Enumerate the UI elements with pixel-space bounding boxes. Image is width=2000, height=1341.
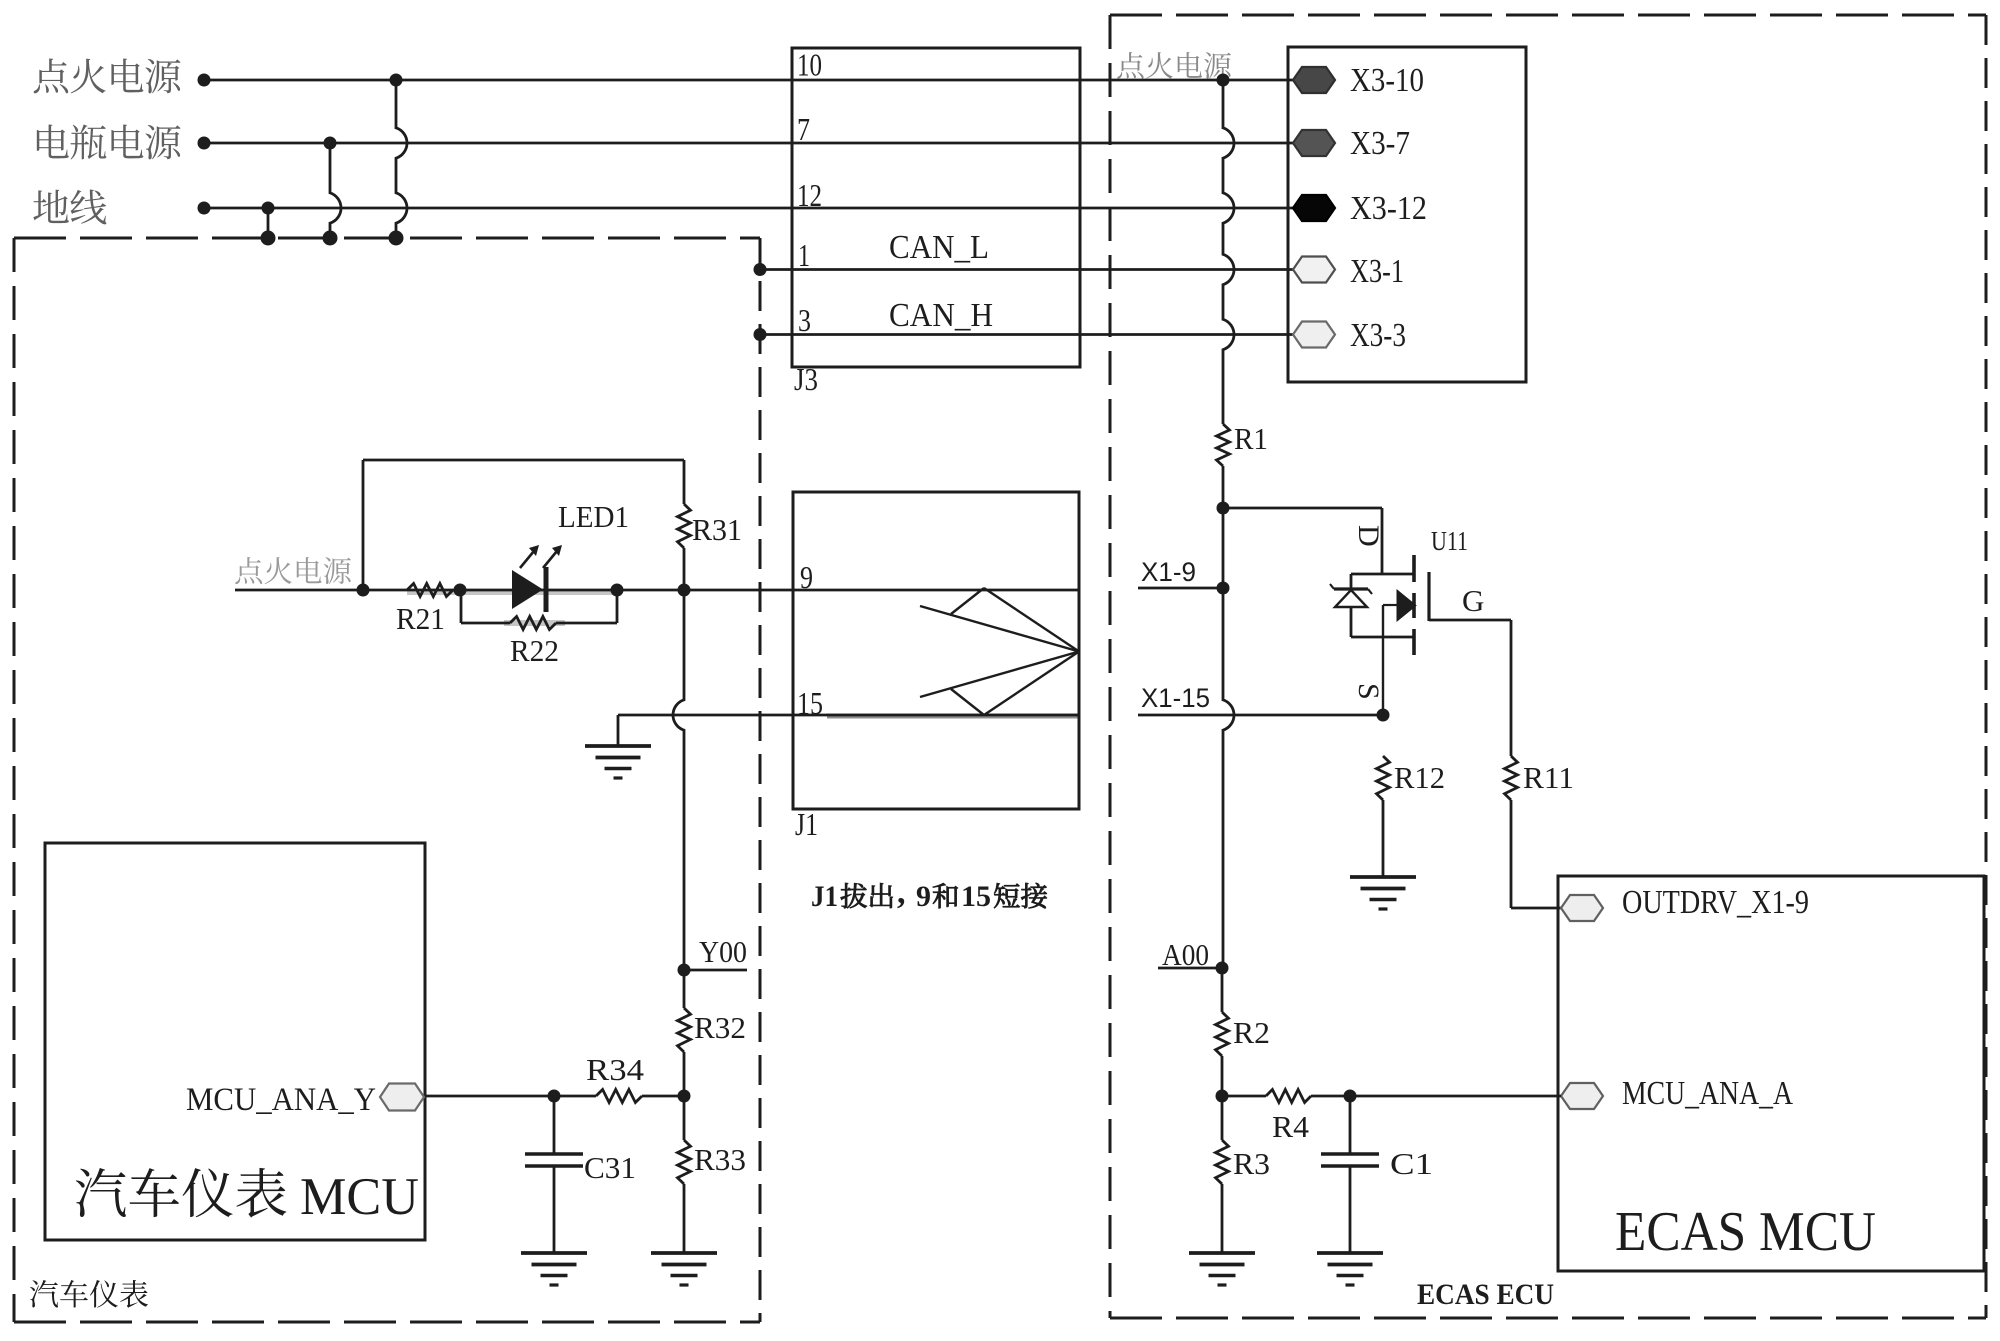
ground on 15 net [617,715,620,746]
svg-text:LED1: LED1 [558,499,629,534]
label 地线 (ground wire) [33,190,68,223]
capacitor C31 [553,1096,556,1154]
svg-text:R12: R12 [1394,760,1445,795]
label 电瓶电源 (battery power) [37,124,69,158]
resistor R4 [1222,1095,1266,1098]
node ignition junction [1217,74,1230,87]
wire battery power rail [204,142,1293,145]
svg-text:C1: C1 [1390,1146,1433,1181]
node R31 junction [678,584,691,597]
svg-text:R31: R31 [692,512,742,547]
wire X1-9 stub [1138,587,1223,590]
node C1 junction [1344,1090,1357,1103]
svg-text:R32: R32 [694,1010,746,1045]
svg-text:MCU_ANA_A: MCU_ANA_A [1622,1075,1793,1112]
resistor R34 [425,1095,596,1098]
svg-text:1: 1 [798,237,810,273]
svg-text:9: 9 [800,559,813,595]
wire battery drop to border [330,143,341,238]
J1 ejector arrows [984,588,1079,652]
resistor R31 [678,504,691,548]
pin MCU_ANA_A [1561,1083,1603,1109]
svg-text:J1: J1 [811,880,838,913]
svg-text:R3: R3 [1233,1146,1270,1181]
LED LED1 [512,570,543,609]
ground below R33 [651,1251,717,1255]
svg-text:7: 7 [797,111,810,147]
label 点火电源 (ignition, at LED row) [235,557,262,584]
pin MCU_ANA_Y [380,1084,424,1111]
svg-text:U11: U11 [1431,526,1468,556]
connector X3 [1288,47,1526,382]
node CAN_L junction on instrument border [754,263,767,276]
svg-text:R2: R2 [1233,1015,1270,1050]
wire X1-9 node down, hop over X1-15, to A00 [1223,588,1234,968]
svg-text:3: 3 [798,302,811,338]
wire gate [1429,619,1511,622]
svg-text:S: S [1352,683,1385,700]
svg-text:J1: J1 [795,806,818,842]
svg-text:R1: R1 [1234,421,1268,456]
svg-text:X1-9: X1-9 [1141,557,1196,587]
svg-text:R21: R21 [396,601,445,636]
wire CAN_H [760,333,1293,336]
resistor R3 [1221,1096,1224,1140]
wire 15 net [618,714,793,717]
node R32/R33/R34 junction [678,1090,691,1103]
wire drain connection [1223,507,1382,510]
capacitor C1 [1349,1096,1352,1154]
svg-text:X3-3: X3-3 [1350,317,1406,354]
svg-text:CAN_H: CAN_H [889,297,993,334]
label 点火电源 (ignition, at ECAS border) [1117,52,1143,79]
svg-text:MCU: MCU [300,1168,419,1226]
ground below C1 [1317,1251,1383,1255]
resistor R11 [1505,756,1518,800]
resistor R2 [1221,968,1224,1012]
node source junction [1377,709,1390,722]
pin X3-12 [1293,195,1335,221]
svg-text:12: 12 [797,177,822,213]
svg-text:ECAS MCU: ECAS MCU [1615,1201,1876,1263]
wire R1 to X1-9 node [1222,466,1225,588]
svg-text:,: , [897,874,906,911]
svg-text:R4: R4 [1272,1109,1310,1144]
label 点火电源 (ignition power) [34,58,69,93]
label 汽车仪表 (enclosure name) [30,1280,58,1307]
wire R4 to MCU_ANA_A [1311,1095,1561,1098]
wire X1-15 line [1138,714,1383,717]
node R2/R3/R4 junction [1216,1090,1229,1103]
transistor U11 (P-MOSFET with body diode) [1351,573,1414,576]
ground below R12 [1350,875,1416,879]
svg-text:J3: J3 [794,361,818,397]
svg-text:C31: C31 [584,1150,636,1185]
pin X3-3 [1293,322,1335,348]
svg-text:15: 15 [797,685,823,721]
wire to OUTDRV pin [1511,907,1561,910]
svg-text:X3-7: X3-7 [1350,125,1410,162]
svg-text:Y00: Y00 [699,934,747,969]
resistor R1 [1217,424,1230,466]
loop top wire [363,459,684,462]
ground below C31 [521,1251,587,1255]
svg-text:R22: R22 [510,633,559,668]
svg-text:X3-1: X3-1 [1350,253,1404,290]
wire ground rail [204,207,1293,210]
svg-text:R33: R33 [694,1142,746,1177]
wire down to Y00 with hop over 15 line [673,590,684,970]
label 汽车仪表 MCU [76,1168,126,1217]
node CAN_H junction on instrument border [754,328,767,341]
resistor R21 [407,584,453,597]
connector J3 [792,48,1080,367]
resistor R33 [683,1096,686,1140]
wire ignition down through hops to R1 [1223,80,1234,424]
wire ground drop to border [267,208,270,238]
svg-text:10: 10 [797,47,822,83]
svg-text:G: G [1462,583,1484,618]
svg-text:R11: R11 [1523,760,1574,795]
dashed box ECAS ECU enclosure [1110,14,1986,17]
汽车仪表 MCU box [45,843,425,1240]
resistor R22 (LED bypass) [460,590,463,623]
svg-text:R34: R34 [586,1052,645,1087]
resistor R12 [1377,756,1390,800]
connector J1 [793,492,1079,809]
svg-text:X1-15: X1-15 [1141,683,1210,713]
pin X3-10 [1293,67,1335,93]
node X1-9 junction [1217,582,1230,595]
wire ignition drop to border [396,80,407,238]
svg-text:CAN_L: CAN_L [889,229,989,266]
resistor R32 [683,970,686,1008]
node drain junction [1217,502,1230,515]
wire 9 net [235,589,793,592]
gray underlay highlight LED net [407,589,616,595]
pin OUTDRV_X1-9 [1561,895,1603,921]
ECAS MCU box [1558,876,1984,1271]
svg-text:15: 15 [961,880,991,913]
pin X3-1 [1293,257,1335,283]
wire CAN_L [760,268,1293,271]
dashed box 汽车仪表 (automotive instrument enclosure) [14,237,760,240]
svg-text:OUTDRV_X1-9: OUTDRV_X1-9 [1622,884,1809,921]
svg-text:X3-10: X3-10 [1350,62,1424,99]
svg-text:ECAS ECU: ECAS ECU [1417,1278,1554,1311]
wire ignition power rail [204,79,1293,82]
svg-text:MCU_ANA_Y: MCU_ANA_Y [186,1082,376,1118]
pin X3-7 [1293,130,1335,156]
node C31 junction [548,1090,561,1103]
svg-text:D: D [1352,525,1385,547]
svg-text:9: 9 [916,880,931,913]
svg-text:X3-12: X3-12 [1350,190,1427,227]
ground below R3 [1189,1251,1255,1255]
